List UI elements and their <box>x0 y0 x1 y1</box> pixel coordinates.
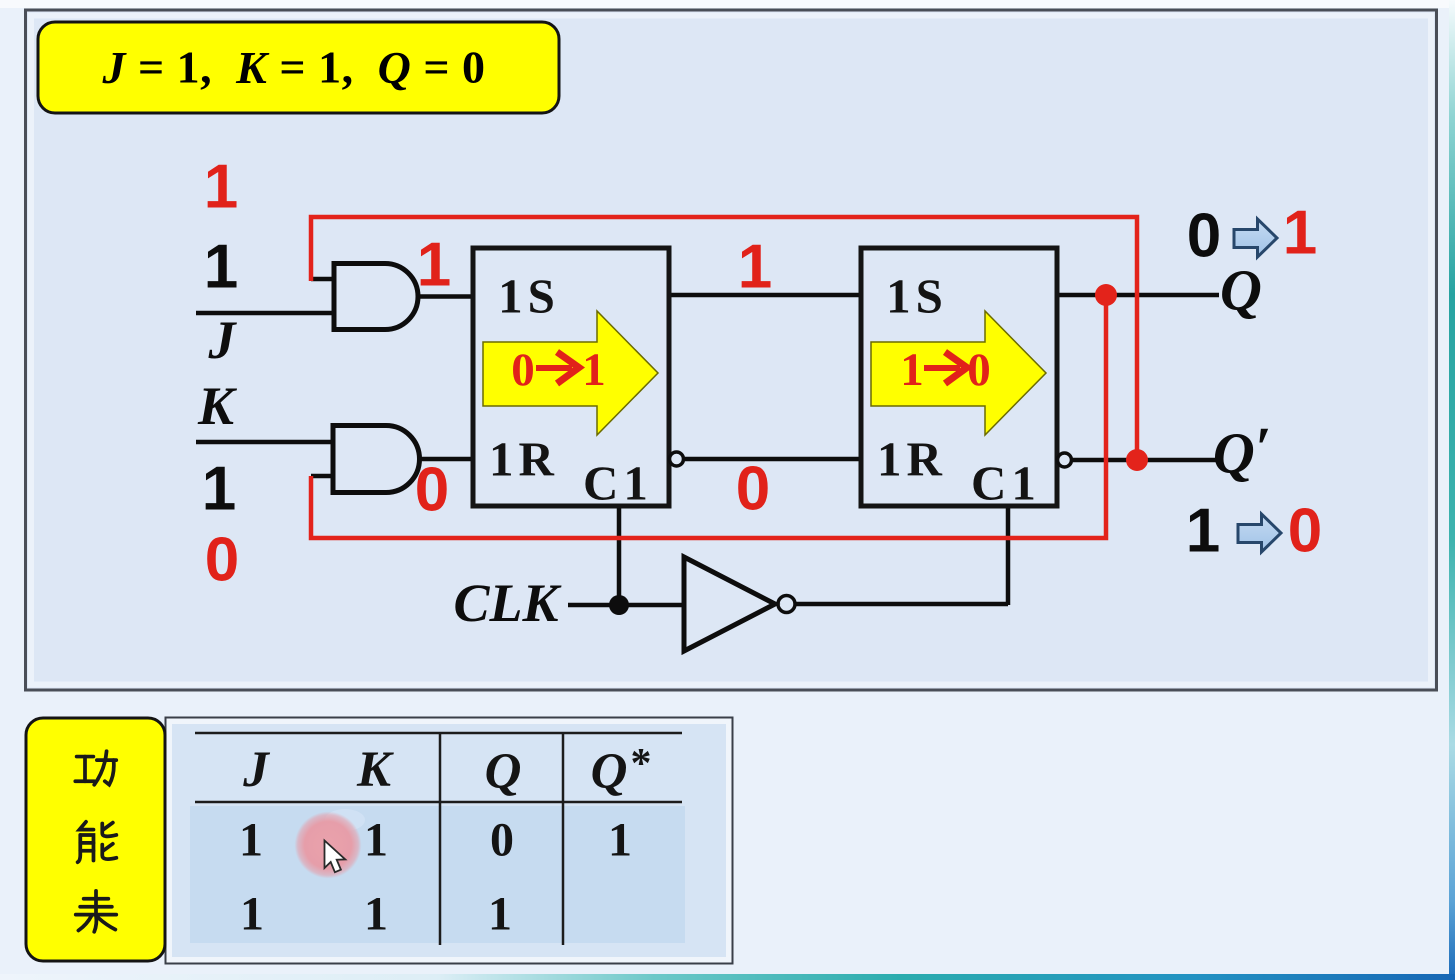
svg-text:1: 1 <box>738 233 772 302</box>
svg-text:0: 0 <box>1187 202 1221 271</box>
svg-text:Q: Q <box>591 744 628 800</box>
svg-text:1: 1 <box>204 233 238 302</box>
svg-text:K: K <box>356 742 394 798</box>
svg-text:1: 1 <box>202 455 236 524</box>
svg-text:1: 1 <box>1283 199 1317 268</box>
svg-text:J = 1, K = 1, Q = 0: J = 1, K = 1, Q = 0 <box>101 42 485 93</box>
svg-text:1: 1 <box>582 344 606 396</box>
svg-text:1R: 1R <box>877 432 947 487</box>
svg-text:1: 1 <box>240 888 264 941</box>
svg-text:0: 0 <box>511 344 535 396</box>
svg-text:1: 1 <box>364 814 388 867</box>
svg-text:J: J <box>208 310 238 370</box>
svg-text:1R: 1R <box>489 432 559 487</box>
svg-text:Q′: Q′ <box>1213 415 1271 486</box>
svg-text:J: J <box>242 742 270 798</box>
svg-text:1: 1 <box>608 814 632 867</box>
svg-text:0: 0 <box>490 814 514 867</box>
svg-text:1S: 1S <box>886 269 948 324</box>
svg-text:1: 1 <box>364 888 388 941</box>
svg-text:0: 0 <box>736 455 770 524</box>
svg-text:1: 1 <box>204 153 238 222</box>
svg-text:Q: Q <box>1220 258 1262 323</box>
svg-text:1: 1 <box>488 888 512 941</box>
svg-text:1: 1 <box>417 231 451 300</box>
svg-text:0: 0 <box>967 344 991 396</box>
svg-text:CLK: CLK <box>453 573 562 633</box>
svg-text:K: K <box>197 376 238 436</box>
svg-text:0: 0 <box>415 456 449 525</box>
svg-text:0: 0 <box>205 526 239 595</box>
svg-text:0: 0 <box>1288 497 1322 566</box>
svg-text:*: * <box>631 741 652 787</box>
svg-text:1S: 1S <box>498 269 560 324</box>
svg-text:1: 1 <box>239 814 263 867</box>
svg-text:1: 1 <box>900 344 924 396</box>
svg-text:Q: Q <box>485 744 522 800</box>
svg-text:C1: C1 <box>971 456 1041 511</box>
svg-text:1: 1 <box>1186 497 1220 566</box>
svg-text:C1: C1 <box>583 456 653 511</box>
